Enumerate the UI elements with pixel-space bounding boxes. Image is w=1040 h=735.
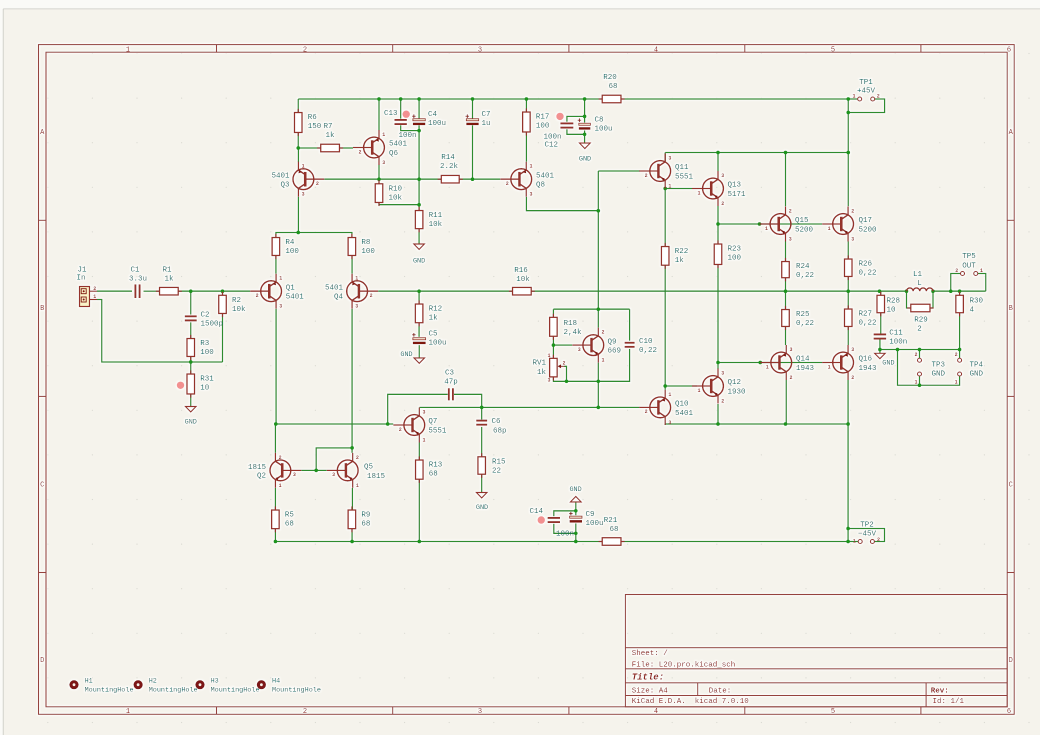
test point TP2 xyxy=(853,522,880,545)
svg-text:D: D xyxy=(1009,657,1013,665)
wire C14 bottom bracket xyxy=(554,524,576,534)
junction Q1 base node R2 xyxy=(221,289,225,293)
svg-text:669: 669 xyxy=(608,348,622,356)
wire Q7 emitter to R13 xyxy=(418,443,420,461)
wire C14 top bracket xyxy=(554,511,576,516)
wire C1 to R1 xyxy=(144,290,160,292)
wire J1 pin1 loop xyxy=(97,300,223,363)
svg-text:R30: R30 xyxy=(970,298,984,306)
mounting hole H4 xyxy=(257,677,321,694)
svg-text:3: 3 xyxy=(851,347,854,353)
svg-text:TP2: TP2 xyxy=(860,522,874,530)
svg-text:In: In xyxy=(76,274,85,282)
svg-text:C9: C9 xyxy=(586,511,595,519)
wire TP2 bracket xyxy=(848,529,884,542)
svg-text:1943: 1943 xyxy=(796,365,815,373)
wire C8 top xyxy=(584,116,586,122)
resistor R15 xyxy=(478,453,506,478)
svg-text:100u: 100u xyxy=(428,120,446,128)
svg-text:R9: R9 xyxy=(361,512,370,520)
wire C13 top xyxy=(400,99,402,119)
svg-text:1: 1 xyxy=(126,46,130,54)
wire Q2 base to Q5 base xyxy=(301,469,326,471)
svg-text:1: 1 xyxy=(602,358,605,364)
svg-text:R7: R7 xyxy=(323,123,332,131)
junction TP3 bottom xyxy=(918,383,922,387)
svg-text:L1: L1 xyxy=(913,271,923,279)
wire C13 bottom jog xyxy=(401,125,419,130)
svg-text:R15: R15 xyxy=(492,458,506,466)
wire output base bus upper xyxy=(718,223,822,225)
svg-text:5: 5 xyxy=(831,708,835,716)
svg-text:H4: H4 xyxy=(272,677,280,685)
svg-text:1: 1 xyxy=(126,708,130,716)
junction output rail R28 xyxy=(878,289,882,293)
junction driver rail Q15 xyxy=(784,151,788,155)
svg-text:2: 2 xyxy=(256,293,259,299)
svg-text:5200: 5200 xyxy=(795,226,814,234)
svg-text:0,22: 0,22 xyxy=(639,347,657,355)
svg-text:R26: R26 xyxy=(859,261,873,269)
svg-text:1: 1 xyxy=(529,164,532,170)
svg-text:R8: R8 xyxy=(361,239,370,247)
wire Q3 emitter up xyxy=(297,148,299,162)
svg-text:1k: 1k xyxy=(325,132,335,140)
junction top rail C13 xyxy=(399,97,403,101)
svg-text:2: 2 xyxy=(877,537,880,543)
wire Q15 collector up xyxy=(785,153,787,207)
wire output rail xyxy=(531,290,906,292)
svg-text:OUT: OUT xyxy=(962,263,976,271)
svg-text:3: 3 xyxy=(547,378,550,384)
wire R6 bottom to node xyxy=(297,133,299,149)
svg-text:R24: R24 xyxy=(796,263,810,271)
wire TP3 bottom pin xyxy=(919,376,921,385)
inductor L1 xyxy=(907,271,934,291)
junction lower rail Q12 xyxy=(716,422,720,426)
wire R15 to GND xyxy=(481,474,483,492)
svg-text:1k: 1k xyxy=(429,315,439,323)
marker C12 xyxy=(556,113,563,120)
wire VAS input rail xyxy=(324,178,441,180)
junction top rail R17 xyxy=(525,97,529,101)
svg-text:1k: 1k xyxy=(164,276,174,284)
svg-text:R16: R16 xyxy=(514,267,528,275)
wire TP5 right xyxy=(978,274,986,292)
mounting hole H2 xyxy=(134,677,198,694)
wire Q6 collector to VAS rail xyxy=(378,165,380,179)
junction C3 left xyxy=(386,422,390,426)
transistor Q17 xyxy=(822,207,877,243)
resistor R22 xyxy=(661,243,688,269)
svg-text:1: 1 xyxy=(697,388,700,394)
svg-text:3: 3 xyxy=(478,708,482,716)
junction VAS rail Q6 xyxy=(377,177,381,181)
svg-text:1943: 1943 xyxy=(859,365,878,373)
ground GND under R31 xyxy=(185,407,197,427)
marker R31 xyxy=(177,382,184,389)
wire C3 left leg xyxy=(388,394,448,424)
junction GND rail TP3 bracket xyxy=(896,348,900,352)
wire Q4 collector down xyxy=(351,309,353,453)
svg-text:H3: H3 xyxy=(211,677,219,685)
wire R11 to GND xyxy=(418,229,420,244)
wire Q14 emitter down xyxy=(785,380,787,424)
wire C8 bottom xyxy=(584,131,586,144)
wire R27 to Q16 collector xyxy=(847,327,849,346)
svg-text:C4: C4 xyxy=(428,111,438,119)
svg-text:1: 1 xyxy=(765,226,768,232)
svg-text:C13: C13 xyxy=(384,110,398,118)
wire Q2 emitter to R5 xyxy=(274,488,276,510)
wire Q7 collector bus xyxy=(420,406,599,408)
svg-text:3: 3 xyxy=(279,304,282,310)
svg-text:1930: 1930 xyxy=(728,388,747,396)
svg-text:3: 3 xyxy=(721,173,724,179)
wire R10 bottom jog xyxy=(379,203,419,205)
svg-text:1u: 1u xyxy=(482,120,491,128)
transistor Q2 xyxy=(248,453,301,489)
svg-text:1: 1 xyxy=(668,392,671,398)
wire node to Q9 base xyxy=(553,344,572,346)
wire Q11 base column xyxy=(597,171,599,328)
wire Q15 emitter to R24 xyxy=(785,242,787,262)
svg-text:100: 100 xyxy=(200,349,214,357)
junction Q12 collector xyxy=(716,361,720,365)
svg-text:1: 1 xyxy=(279,276,282,282)
svg-text:5401: 5401 xyxy=(389,141,408,149)
svg-text:1: 1 xyxy=(302,164,305,170)
capacitor C12 xyxy=(543,123,573,149)
junction bottom rail TP2 xyxy=(846,540,850,544)
svg-text:2: 2 xyxy=(955,352,958,358)
transistor Q13 xyxy=(692,171,746,207)
wire R23 column crossing xyxy=(717,265,719,363)
svg-text:R10: R10 xyxy=(389,185,403,193)
svg-text:TP3: TP3 xyxy=(932,361,946,369)
svg-text:Size: A4: Size: A4 xyxy=(632,687,669,695)
junction R22/Q12 base xyxy=(663,384,667,388)
resistor R5 xyxy=(272,506,295,532)
svg-text:C7: C7 xyxy=(482,111,491,119)
capacitor C13 xyxy=(384,110,417,140)
junction Q11 emitter xyxy=(663,187,667,191)
wire R2 bottom xyxy=(222,314,224,363)
junction lower rail Q14 xyxy=(784,422,788,426)
svg-text:100u: 100u xyxy=(595,126,613,134)
svg-text:47p: 47p xyxy=(444,378,458,386)
wire Q11 emitter to Q13 base xyxy=(665,188,692,190)
junction Q14 base xyxy=(758,361,762,365)
svg-text:3: 3 xyxy=(668,420,671,426)
svg-text:2,4k: 2,4k xyxy=(564,329,583,337)
svg-text:2: 2 xyxy=(789,375,792,381)
capacitor C10 xyxy=(625,338,657,355)
svg-text:Sheet: /: Sheet: / xyxy=(632,650,669,658)
svg-text:C6: C6 xyxy=(492,418,502,426)
wire Q5 emitter to R9 xyxy=(351,488,353,510)
svg-text:3: 3 xyxy=(789,347,792,353)
ground GND above C9 xyxy=(569,486,581,502)
wire Q11 base xyxy=(598,170,640,172)
svg-text:2: 2 xyxy=(955,268,958,274)
capacitor C11 xyxy=(874,330,908,347)
svg-text:R29: R29 xyxy=(914,317,928,325)
wire Q9 feedback node xyxy=(552,309,554,317)
wire C4 top xyxy=(418,99,420,119)
resistor R12 xyxy=(415,300,442,326)
svg-text:+45V: +45V xyxy=(857,88,876,96)
svg-text:1k: 1k xyxy=(537,369,547,377)
svg-text:R25: R25 xyxy=(796,311,810,319)
wire R30 bottom xyxy=(959,313,961,350)
wire TP4 top pin xyxy=(959,350,961,359)
svg-text:3: 3 xyxy=(478,46,482,54)
wire J1 pin2 to C1 xyxy=(97,290,132,292)
wire R1 to Q1 base xyxy=(178,290,250,292)
wire Q12 collector node xyxy=(717,362,719,369)
junction driver rail Q13 xyxy=(716,151,720,155)
svg-text:D: D xyxy=(40,657,44,665)
resistor R28 xyxy=(877,292,900,317)
svg-text:1: 1 xyxy=(828,226,831,232)
wire C6 to R15 xyxy=(481,427,483,457)
wire C4/R11 column xyxy=(418,125,420,210)
wire C9 bottom xyxy=(575,523,577,541)
svg-text:2: 2 xyxy=(645,173,648,179)
svg-text:GND: GND xyxy=(476,504,488,512)
wire R3 bottom xyxy=(190,357,192,363)
capacitor C4 xyxy=(412,111,446,128)
wire Q11 collector up xyxy=(664,153,666,162)
junction wiper node xyxy=(565,379,569,383)
wire Q3 collector down xyxy=(297,197,299,233)
transistor Q10 xyxy=(639,390,693,426)
transistor Q12 xyxy=(692,369,746,405)
svg-text:GND: GND xyxy=(579,155,591,163)
svg-text:5551: 5551 xyxy=(428,427,447,435)
svg-text:Q9: Q9 xyxy=(608,338,617,346)
svg-text:5200: 5200 xyxy=(859,226,878,234)
wire -45V bottom rail xyxy=(275,541,602,543)
svg-text:5401: 5401 xyxy=(271,173,290,181)
resistor R27 xyxy=(844,305,876,330)
wire GND stub xyxy=(879,350,881,354)
junction Q9 base node xyxy=(552,343,556,347)
svg-text:2: 2 xyxy=(303,708,307,716)
svg-text:C8: C8 xyxy=(595,117,604,125)
wire output rail after L1 xyxy=(933,290,986,292)
wire Q4 base to R16 xyxy=(378,290,512,292)
wire R10 top xyxy=(378,179,380,184)
svg-text:GND: GND xyxy=(569,486,581,494)
wire C2 top xyxy=(190,291,192,314)
svg-text:1: 1 xyxy=(423,438,426,444)
junction C9 top node xyxy=(574,509,578,513)
junction NFB node xyxy=(274,422,278,426)
wire R22 node to Q12 base xyxy=(665,385,697,387)
wire R17 to Q8 collector xyxy=(525,132,527,162)
resistor R23 xyxy=(714,240,741,268)
svg-text:5551: 5551 xyxy=(675,173,694,181)
junction TP1 return xyxy=(846,111,850,115)
svg-text:1: 1 xyxy=(853,539,856,545)
junction Q2/Q5 base xyxy=(314,469,318,473)
svg-text:100n: 100n xyxy=(889,339,907,347)
wire TP1 bracket xyxy=(848,99,884,113)
svg-text:R22: R22 xyxy=(675,248,689,256)
wire R8 to Q4 emitter xyxy=(351,256,353,274)
transistor Q5 xyxy=(327,453,386,489)
ground GND at C11 xyxy=(875,353,895,367)
svg-text:1: 1 xyxy=(668,184,671,190)
resistor R29 xyxy=(907,304,933,333)
wire C12 top bracket xyxy=(567,116,585,121)
resistor R14 xyxy=(438,154,463,183)
svg-text:5401: 5401 xyxy=(286,294,305,302)
wire R4 to Q1 emitter xyxy=(275,256,277,274)
transistor Q16 xyxy=(822,345,877,381)
svg-text:L: L xyxy=(917,280,922,288)
svg-text:2: 2 xyxy=(399,427,402,433)
wire Q13 collector up xyxy=(717,153,719,172)
marker C14 xyxy=(538,516,545,523)
svg-text:H2: H2 xyxy=(149,677,157,685)
resistor R6 xyxy=(294,109,321,136)
wire Q6 emitter to rail xyxy=(378,99,380,130)
title block xyxy=(625,595,1007,707)
junction C6 top xyxy=(480,406,484,410)
wire C7 top xyxy=(472,99,474,119)
wire Q9 emitter down xyxy=(597,363,599,408)
resistor R11 xyxy=(415,207,442,232)
wire R28 top xyxy=(880,291,882,295)
svg-text:1: 1 xyxy=(914,379,917,385)
wire R29 bracket left xyxy=(907,291,911,308)
svg-text:1: 1 xyxy=(980,268,983,274)
junction Q8 emitter node xyxy=(596,209,600,213)
svg-text:0,22: 0,22 xyxy=(859,270,877,278)
wire R25 top xyxy=(785,291,787,309)
wire TP2 column xyxy=(847,424,849,542)
junction bottom rail C9 xyxy=(574,540,578,544)
resistor R21 xyxy=(599,517,625,546)
svg-text:2: 2 xyxy=(789,209,792,215)
svg-text:Title:: Title: xyxy=(632,673,664,683)
svg-text:2: 2 xyxy=(303,46,307,54)
wire +45V drop column xyxy=(847,99,849,206)
wire R31 to GND xyxy=(190,394,192,407)
junction emitter bus xyxy=(296,231,300,235)
wire lower base bus xyxy=(718,362,822,364)
svg-text:100: 100 xyxy=(361,248,375,256)
wire C9 column top xyxy=(575,502,577,516)
svg-text:R4: R4 xyxy=(285,239,295,247)
svg-text:2: 2 xyxy=(93,286,96,292)
junction lower rail Q16 xyxy=(846,422,850,426)
junction VAS rail C4 xyxy=(417,177,421,181)
svg-text:R12: R12 xyxy=(429,306,443,314)
transistor Q4 xyxy=(325,274,378,310)
mounting hole H1 xyxy=(69,677,133,694)
svg-text:5401: 5401 xyxy=(325,285,344,293)
svg-text:Q15: Q15 xyxy=(795,217,809,225)
wire C10 top xyxy=(629,309,631,341)
junction driver rail Q17 xyxy=(846,151,850,155)
wire R6 top feed xyxy=(297,99,299,113)
svg-text:1: 1 xyxy=(547,353,550,359)
capacitor C8 xyxy=(578,117,613,134)
svg-text:3.3u: 3.3u xyxy=(129,276,147,284)
svg-text:GND: GND xyxy=(970,370,984,378)
svg-text:1: 1 xyxy=(355,276,358,282)
transistor Q3 xyxy=(271,162,324,198)
svg-text:10k: 10k xyxy=(389,194,403,202)
svg-text:2: 2 xyxy=(721,201,724,207)
svg-text:1815: 1815 xyxy=(367,473,386,481)
svg-text:100: 100 xyxy=(728,255,742,263)
junction VAS rail C7 xyxy=(471,177,475,181)
svg-text:22: 22 xyxy=(492,467,501,475)
junction C12/C8 top xyxy=(583,115,587,119)
wire bottom rail right of R21 xyxy=(621,541,858,543)
svg-text:Q16: Q16 xyxy=(859,356,873,364)
svg-text:Q14: Q14 xyxy=(796,356,810,364)
wire C12 bottom bracket xyxy=(567,129,585,134)
junction TP2 bracket xyxy=(846,527,850,531)
svg-text:4: 4 xyxy=(970,307,975,315)
wire R5 to bottom rail xyxy=(274,529,276,542)
junction top rail C7 xyxy=(471,97,475,101)
svg-text:1: 1 xyxy=(955,379,958,385)
wire Q10 collector up xyxy=(664,386,666,390)
svg-text:C14: C14 xyxy=(529,508,543,516)
wire Q11 emitter / R22 column xyxy=(664,189,666,247)
junction Q5 collector tie xyxy=(350,446,354,450)
svg-text:RV1: RV1 xyxy=(532,360,546,368)
capacitor C9 xyxy=(569,511,603,528)
junction C9 bottom node xyxy=(574,531,578,535)
svg-text:0,22: 0,22 xyxy=(796,320,814,328)
svg-text:5171: 5171 xyxy=(728,191,747,199)
connector J1 xyxy=(76,266,97,306)
svg-text:5401: 5401 xyxy=(675,410,694,418)
wire TP3 top pin xyxy=(919,350,921,359)
svg-text:100u: 100u xyxy=(586,520,604,528)
svg-text:TP4: TP4 xyxy=(970,361,984,369)
transistor Q1 xyxy=(250,274,304,310)
wire Q1 collector down xyxy=(275,309,277,424)
resistor R30 xyxy=(956,292,984,317)
wire R7 to Q6 base xyxy=(340,147,354,149)
wire node to R7 xyxy=(298,147,320,149)
svg-text:R18: R18 xyxy=(564,320,578,328)
resistor R9 xyxy=(348,506,370,532)
svg-text:68p: 68p xyxy=(493,428,507,436)
svg-text:TP1: TP1 xyxy=(859,79,873,87)
svg-text:Q10: Q10 xyxy=(675,401,689,409)
transistor Q11 xyxy=(639,154,693,190)
resistor R17 xyxy=(523,108,550,135)
wire R22 lower column xyxy=(664,265,666,386)
wire R18 bottom node xyxy=(552,336,554,345)
ground GND under R15 xyxy=(476,493,488,513)
svg-text:Q17: Q17 xyxy=(859,217,873,225)
wire R2 top xyxy=(222,291,224,295)
svg-text:H1: H1 xyxy=(85,677,93,685)
wire Q16 emitter down xyxy=(847,380,849,424)
resistor R18 xyxy=(550,314,582,340)
